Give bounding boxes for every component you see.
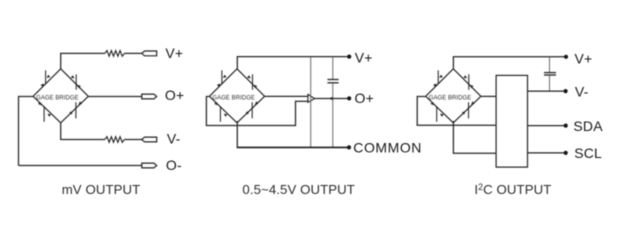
svg-text:GAGE BRIDGE: GAGE BRIDGE: [429, 95, 472, 101]
gage bridge B2 (0.5~4.5V output): [209, 69, 264, 123]
terminal lug O-: [142, 163, 157, 168]
wire: IC to SCL dot: [528, 152, 566, 154]
terminal lug O+: [142, 94, 157, 99]
wire: B3 left vertex wrap to IC: [417, 96, 426, 98]
svg-text:V+: V+: [355, 49, 373, 65]
capacitor C2: [544, 72, 556, 74]
op-amp buffer U1: [308, 94, 315, 102]
wire: V+ rail to capacitor C2: [549, 57, 551, 72]
wire: IC to V- dot: [528, 90, 566, 92]
node V- terminal dot: [564, 89, 568, 93]
wire: resistor to V- terminal: [124, 139, 141, 141]
svg-text:V+: V+: [575, 50, 593, 66]
svg-text:O+: O+: [355, 90, 374, 106]
strain gauge arm TR: [61, 69, 89, 97]
strain gauge arm TR: [237, 69, 265, 97]
wire: B1 bottom vertex to V- row: [60, 122, 62, 140]
node SDA terminal dot: [564, 124, 568, 128]
strain gauge arm TL: [33, 69, 61, 97]
svg-text:SCL: SCL: [574, 145, 602, 161]
svg-text:I2C OUTPUT: I2C OUTPUT: [474, 182, 551, 197]
strain gauge arm BR: [237, 96, 265, 123]
gage bridge B1 (mV output): [33, 69, 88, 123]
wire: IC to SDA dot: [528, 125, 566, 127]
wire: B2 right vertex to amplifier input: [265, 95, 308, 97]
node SCL terminal dot: [564, 151, 568, 155]
terminal lug V-: [142, 137, 157, 142]
wire: resistor to V+ terminal: [124, 52, 141, 54]
svg-text:GAGE BRIDGE: GAGE BRIDGE: [212, 95, 255, 101]
wire: V+ rail to filter capacitor C1: [332, 57, 334, 79]
wire: B1 left vertex around to O- terminal: [19, 96, 34, 98]
wire: amplifier output to O+: [315, 98, 350, 100]
wire: B2 bottom vertex to common rail: [236, 121, 238, 147]
wire: B3 right vertex to IC: [481, 95, 496, 97]
wire: B2 left vertex wrap to amplifier lower input: [206, 96, 209, 98]
resistor in V+ lead: [105, 51, 125, 57]
strain gauge arm TR: [453, 69, 481, 97]
svg-text:COMMON: COMMON: [353, 140, 422, 156]
node V+ terminal dot: [347, 55, 351, 59]
svg-text:GAGE BRIDGE: GAGE BRIDGE: [36, 95, 79, 101]
wire: B1 right vertex to O+ terminal: [88, 96, 142, 98]
IC U2 (I2C interface): [496, 75, 527, 167]
wire: B2 top vertex to V+ rail: [236, 57, 238, 70]
node V+ terminal dot: [564, 55, 568, 59]
gage bridge B3 (I2C output): [426, 69, 481, 123]
svg-text:V+: V+: [165, 45, 183, 61]
resistor in V- lead: [105, 137, 125, 143]
wire: B3 bottom vertex to IC: [452, 121, 454, 153]
svg-text:O-: O-: [166, 157, 182, 173]
svg-text:V-: V-: [575, 83, 589, 99]
svg-text:V-: V-: [167, 131, 181, 147]
strain gauge arm BL: [209, 96, 237, 123]
strain gauge arm TL: [426, 69, 454, 97]
wire: B1 top vertex to V+ row: [60, 53, 62, 69]
terminal lug V+: [142, 51, 157, 56]
capacitor C1: [327, 79, 338, 81]
wire: B3 top vertex to V+ rail: [452, 57, 454, 70]
strain gauge arm BR: [61, 96, 89, 123]
svg-text:O+: O+: [165, 87, 184, 103]
wire: capacitor C1 to O+ line and common rail: [332, 83, 334, 147]
svg-text:SDA: SDA: [573, 118, 603, 134]
node COMMON terminal dot: [347, 145, 351, 149]
strain gauge arm BR: [453, 96, 481, 123]
strain gauge arm TL: [209, 69, 237, 97]
wire: capacitor C2 to V- row: [549, 76, 551, 92]
junction arrow on O+ line: [329, 97, 332, 100]
strain gauge arm BL: [426, 96, 454, 123]
svg-text:mV OUTPUT: mV OUTPUT: [62, 182, 141, 197]
svg-text:0.5~4.5V OUTPUT: 0.5~4.5V OUTPUT: [242, 182, 355, 197]
node O+ terminal dot: [347, 96, 351, 100]
wire: vertical V+ rail to common rail through amp: [310, 57, 312, 147]
strain gauge arm BL: [33, 96, 61, 123]
